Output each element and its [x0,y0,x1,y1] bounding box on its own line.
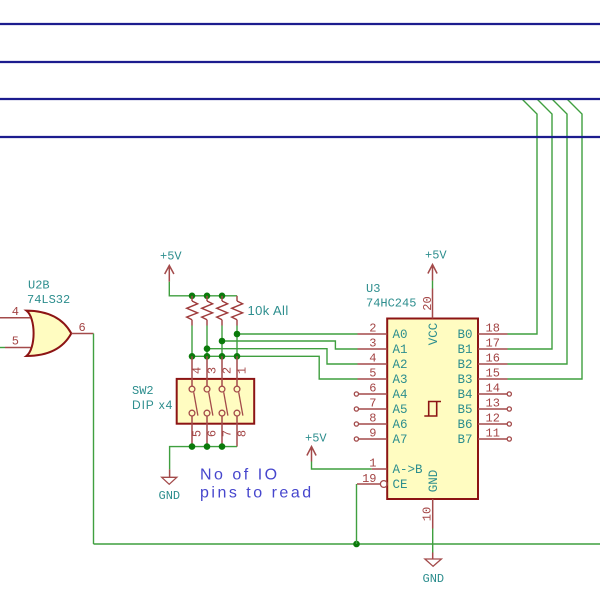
junction rail r2 [204,293,211,300]
pin 13 stub B5 [478,408,508,410]
svg-text:7: 7 [221,430,235,437]
svg-text:VCC: VCC [427,323,441,346]
wire B2 bus entry [508,100,568,365]
svg-text:B7: B7 [457,433,472,447]
svg-text:GND: GND [159,489,181,503]
wire to A1 [222,341,358,349]
svg-text:74LS32: 74LS32 [27,293,70,307]
svg-text:SW2: SW2 [132,384,154,398]
svg-text:1: 1 [236,367,250,374]
svg-text:A1: A1 [393,343,408,357]
pin 16 stub B2 [478,363,508,365]
pin 19 stub CE [357,483,380,485]
pin 17 stub B1 [478,348,508,350]
svg-text:DIP x4: DIP x4 [132,398,173,412]
resistor R4 10k [232,296,243,326]
junction sw col2 [204,353,211,360]
pin 11 circle [507,437,511,441]
svg-text:+5V: +5V [305,432,327,446]
+5V supply at resistors [160,250,182,282]
wire R3 column [221,326,223,357]
resistor R2 10k [202,296,213,326]
pin 6 stub A4 [358,393,387,395]
pin 8 stub A6 [358,423,387,425]
wire +5V to pin 1 [312,462,372,470]
sw2 contacts [204,386,213,416]
svg-text:CE: CE [393,478,408,492]
svg-text:B1: B1 [457,343,472,357]
svg-text:6: 6 [206,430,220,437]
pin 5 stub A3 [358,378,388,380]
svg-text:5: 5 [12,335,19,349]
pin 2 stub A0 [358,333,388,335]
svg-text:8: 8 [236,430,250,437]
junction A0 [234,331,241,338]
junction A2 [204,345,211,352]
pin 5 stub U2B [5,347,31,349]
svg-text:3: 3 [206,367,220,374]
svg-text:19: 19 [362,472,376,486]
sw pin stub bottom 3 [221,415,223,446]
wire CE vertical [356,484,358,544]
svg-text:1: 1 [369,457,376,471]
wire R2 column [206,326,208,357]
svg-text:GND: GND [423,572,445,586]
pin 19 bubble [380,481,387,488]
svg-text:A6: A6 [393,418,408,432]
svg-text:10: 10 [421,507,435,521]
wire bottom horizontal [94,543,600,545]
wire R1 column [191,326,193,357]
pin 11 stub B7 [478,438,508,440]
pin 9 stub A7 [358,438,387,440]
junction bottom CE [353,541,360,548]
wire +5V to resistor rail [169,282,237,296]
pin 4 stub A2 [358,363,388,365]
wire pin10 to ground [432,529,434,553]
pin 10 stub GND [432,499,434,529]
ic U3 body [387,319,478,500]
svg-text:+5V: +5V [160,250,182,264]
svg-text:pins to read: pins to read [200,485,314,502]
svg-text:U2B: U2B [28,279,50,293]
svg-text:A4: A4 [393,388,408,402]
+5V supply at pin 1 [305,432,327,462]
svg-text:3: 3 [369,337,376,351]
pin 9 circle [354,437,358,441]
svg-text:A->B: A->B [393,463,424,477]
svg-text:7: 7 [369,397,376,411]
svg-text:B2: B2 [457,358,472,372]
pin 12 circle [507,422,511,426]
svg-text:13: 13 [486,397,500,411]
pin 3 stub A1 [358,348,388,350]
svg-text:8: 8 [369,412,376,426]
pin 14 circle [507,392,511,396]
svg-text:20: 20 [421,296,435,310]
pin 1 stub A->B [372,468,388,470]
pin 7 circle [354,407,358,411]
pin 13 circle [507,407,511,411]
switch SW2 box [177,379,255,424]
junction swb2 [204,443,211,450]
junction sw col1 [189,353,196,360]
svg-text:2: 2 [369,322,376,336]
svg-text:A7: A7 [393,433,408,447]
wire +5V to VCC [432,281,434,289]
sw1 contacts [189,386,198,416]
wire switch bottom rail [170,447,237,470]
svg-text:A5: A5 [393,403,408,417]
svg-text:B0: B0 [457,328,472,342]
svg-text:5: 5 [191,430,205,437]
wire B0 bus entry [508,100,538,335]
sw pin stub top 2 [206,356,208,386]
svg-text:14: 14 [486,382,500,396]
svg-text:16: 16 [486,352,500,366]
pin 7 stub A5 [358,408,387,410]
pin 14 stub B4 [478,393,508,395]
bus line 2 [0,61,600,63]
pin 18 stub B0 [478,333,508,335]
wire R4 column [236,326,238,357]
svg-text:5: 5 [369,367,376,381]
pin 20 VCC stub [432,289,434,319]
junction sw col3 [219,353,226,360]
junction A1 [219,338,226,345]
svg-text:6: 6 [369,382,376,396]
wire to A2 [207,349,358,364]
+5V supply at U3 [425,249,447,281]
svg-text:74HC245: 74HC245 [366,297,416,311]
resistor R1 10k [187,296,198,326]
pin 8 circle [354,422,358,426]
pin 12 stub B6 [478,423,508,425]
sw pin stub bottom 1 [191,415,193,446]
junction sw col4 [234,353,241,360]
junction swb1 [189,443,196,450]
svg-text:12: 12 [486,412,500,426]
svg-text:6: 6 [79,321,86,335]
wire into pin 5 [0,347,5,349]
resistor R3 10k [217,296,228,326]
sw pin stub bottom 2 [206,415,208,446]
svg-text:2: 2 [221,367,235,374]
svg-text:11: 11 [486,427,500,441]
svg-text:B3: B3 [457,373,472,387]
junction rail r3 [219,293,226,300]
svg-text:+5V: +5V [425,249,447,263]
junction swb3 [219,443,226,450]
pin 4 stub U2B [0,317,31,319]
svg-text:B6: B6 [457,418,472,432]
pin 6 circle [354,392,358,396]
svg-text:15: 15 [486,367,500,381]
wire to A3 [192,356,358,379]
svg-text:No of IO: No of IO [200,467,280,484]
svg-text:A3: A3 [393,373,408,387]
svg-text:4: 4 [191,367,205,374]
sw3 contacts [219,386,228,416]
ground symbol under U3 [425,553,442,567]
svg-text:U3: U3 [366,282,380,296]
or-gate U2B [26,311,71,356]
ground symbol under switch [162,469,177,484]
sw pin stub top 4 [236,356,238,386]
svg-text:A2: A2 [393,358,408,372]
svg-text:18: 18 [486,322,500,336]
svg-text:4: 4 [12,305,19,319]
svg-text:10k All: 10k All [248,303,289,318]
wire U2B output down [93,334,95,545]
sw pin stub bottom 4 [236,415,238,446]
sw pin stub top 1 [191,356,193,386]
svg-text:B4: B4 [457,388,472,402]
wire to A0 [237,333,358,335]
bus line 4 [0,136,600,138]
pin 15 stub B3 [478,378,508,380]
pin 6 stub U2B output [72,333,94,335]
bus line 3 [0,98,600,100]
junction rail r1 [189,293,196,300]
svg-text:B5: B5 [457,403,472,417]
bus line 1 [0,23,600,25]
svg-text:4: 4 [369,352,376,366]
buffer icon U3 [424,402,441,417]
sw pin stub top 3 [221,356,223,386]
sw4 contacts [234,386,243,416]
svg-text:9: 9 [369,427,376,441]
svg-text:GND: GND [427,470,441,493]
wire B3 bus entry [508,100,583,380]
wire B1 bus entry [508,100,553,350]
svg-text:A0: A0 [393,328,408,342]
svg-text:17: 17 [486,337,500,351]
